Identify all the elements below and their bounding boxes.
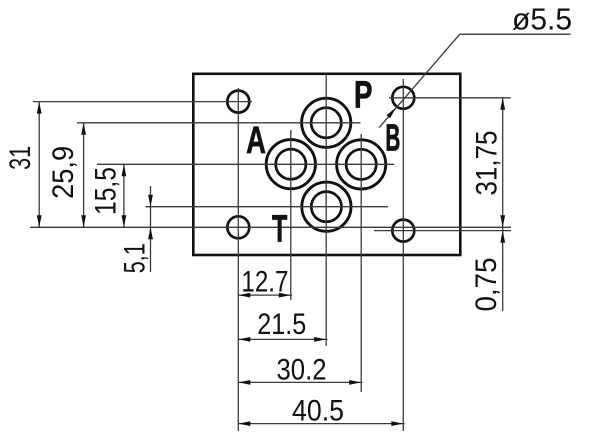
mounting hole top-left bbox=[227, 91, 249, 113]
port A outer circle bbox=[266, 140, 315, 189]
svg-text:31: 31 bbox=[4, 146, 37, 170]
valve body outline bbox=[193, 74, 460, 255]
svg-text:40.5: 40.5 bbox=[292, 395, 344, 428]
svg-text:A: A bbox=[246, 120, 266, 162]
dimension line 30.2 bbox=[238, 381, 362, 383]
extension line port P centerline bbox=[77, 122, 361, 124]
extension line top-right hole centerline bbox=[389, 97, 511, 99]
mounting hole bottom-left bbox=[227, 216, 249, 238]
svg-text:15,5: 15,5 bbox=[90, 167, 123, 215]
svg-text:B: B bbox=[385, 118, 400, 160]
extension line top-left hole centerline bbox=[33, 101, 252, 103]
port B inner circle bbox=[346, 149, 376, 179]
extension line vertical ports P T bbox=[325, 74, 327, 346]
svg-text:12.7: 12.7 bbox=[241, 266, 288, 299]
extension line vertical right holes bbox=[402, 79, 404, 431]
extension line ports A B centerline bbox=[97, 163, 394, 165]
leader line for hole diameter bbox=[460, 33, 571, 35]
port T outer circle bbox=[302, 182, 351, 231]
extension line datum bottom holes centerline bbox=[30, 226, 511, 228]
svg-text:T: T bbox=[272, 208, 287, 250]
port T inner circle bbox=[311, 192, 341, 222]
extension line bottom-right hole centerline bbox=[374, 230, 511, 232]
dimension line 21.5 bbox=[238, 338, 327, 340]
dimension line 15,5 bbox=[123, 164, 125, 227]
port B outer circle bbox=[337, 140, 386, 189]
svg-text:30.2: 30.2 bbox=[277, 354, 327, 387]
svg-text:5,1: 5,1 bbox=[119, 243, 152, 273]
dimension line 31,75 and 0,75 bbox=[502, 98, 504, 311]
svg-text:25,9: 25,9 bbox=[47, 146, 80, 199]
svg-text:P: P bbox=[354, 74, 373, 116]
mounting hole top-right bbox=[392, 87, 414, 109]
port A inner circle bbox=[276, 149, 306, 179]
svg-text:0,75: 0,75 bbox=[470, 258, 503, 312]
dimension line 5,1 bbox=[150, 186, 152, 272]
port P outer circle bbox=[302, 98, 351, 147]
svg-text:ø5.5: ø5.5 bbox=[512, 2, 572, 37]
svg-text:21.5: 21.5 bbox=[257, 308, 306, 341]
dimension line 31 bbox=[38, 102, 40, 228]
dimension line 40.5 bbox=[238, 423, 404, 425]
extension line port T centerline bbox=[146, 206, 389, 208]
dimension line 12.7 bbox=[238, 294, 292, 296]
extension line vertical left holes bbox=[237, 88, 239, 431]
dimension line 25,9 bbox=[83, 123, 85, 228]
port P inner circle bbox=[311, 108, 341, 138]
extension line vertical port B bbox=[360, 134, 362, 392]
mounting hole bottom-right bbox=[392, 220, 414, 242]
svg-text:31,75: 31,75 bbox=[471, 131, 504, 196]
extension line vertical port A bbox=[290, 130, 292, 300]
